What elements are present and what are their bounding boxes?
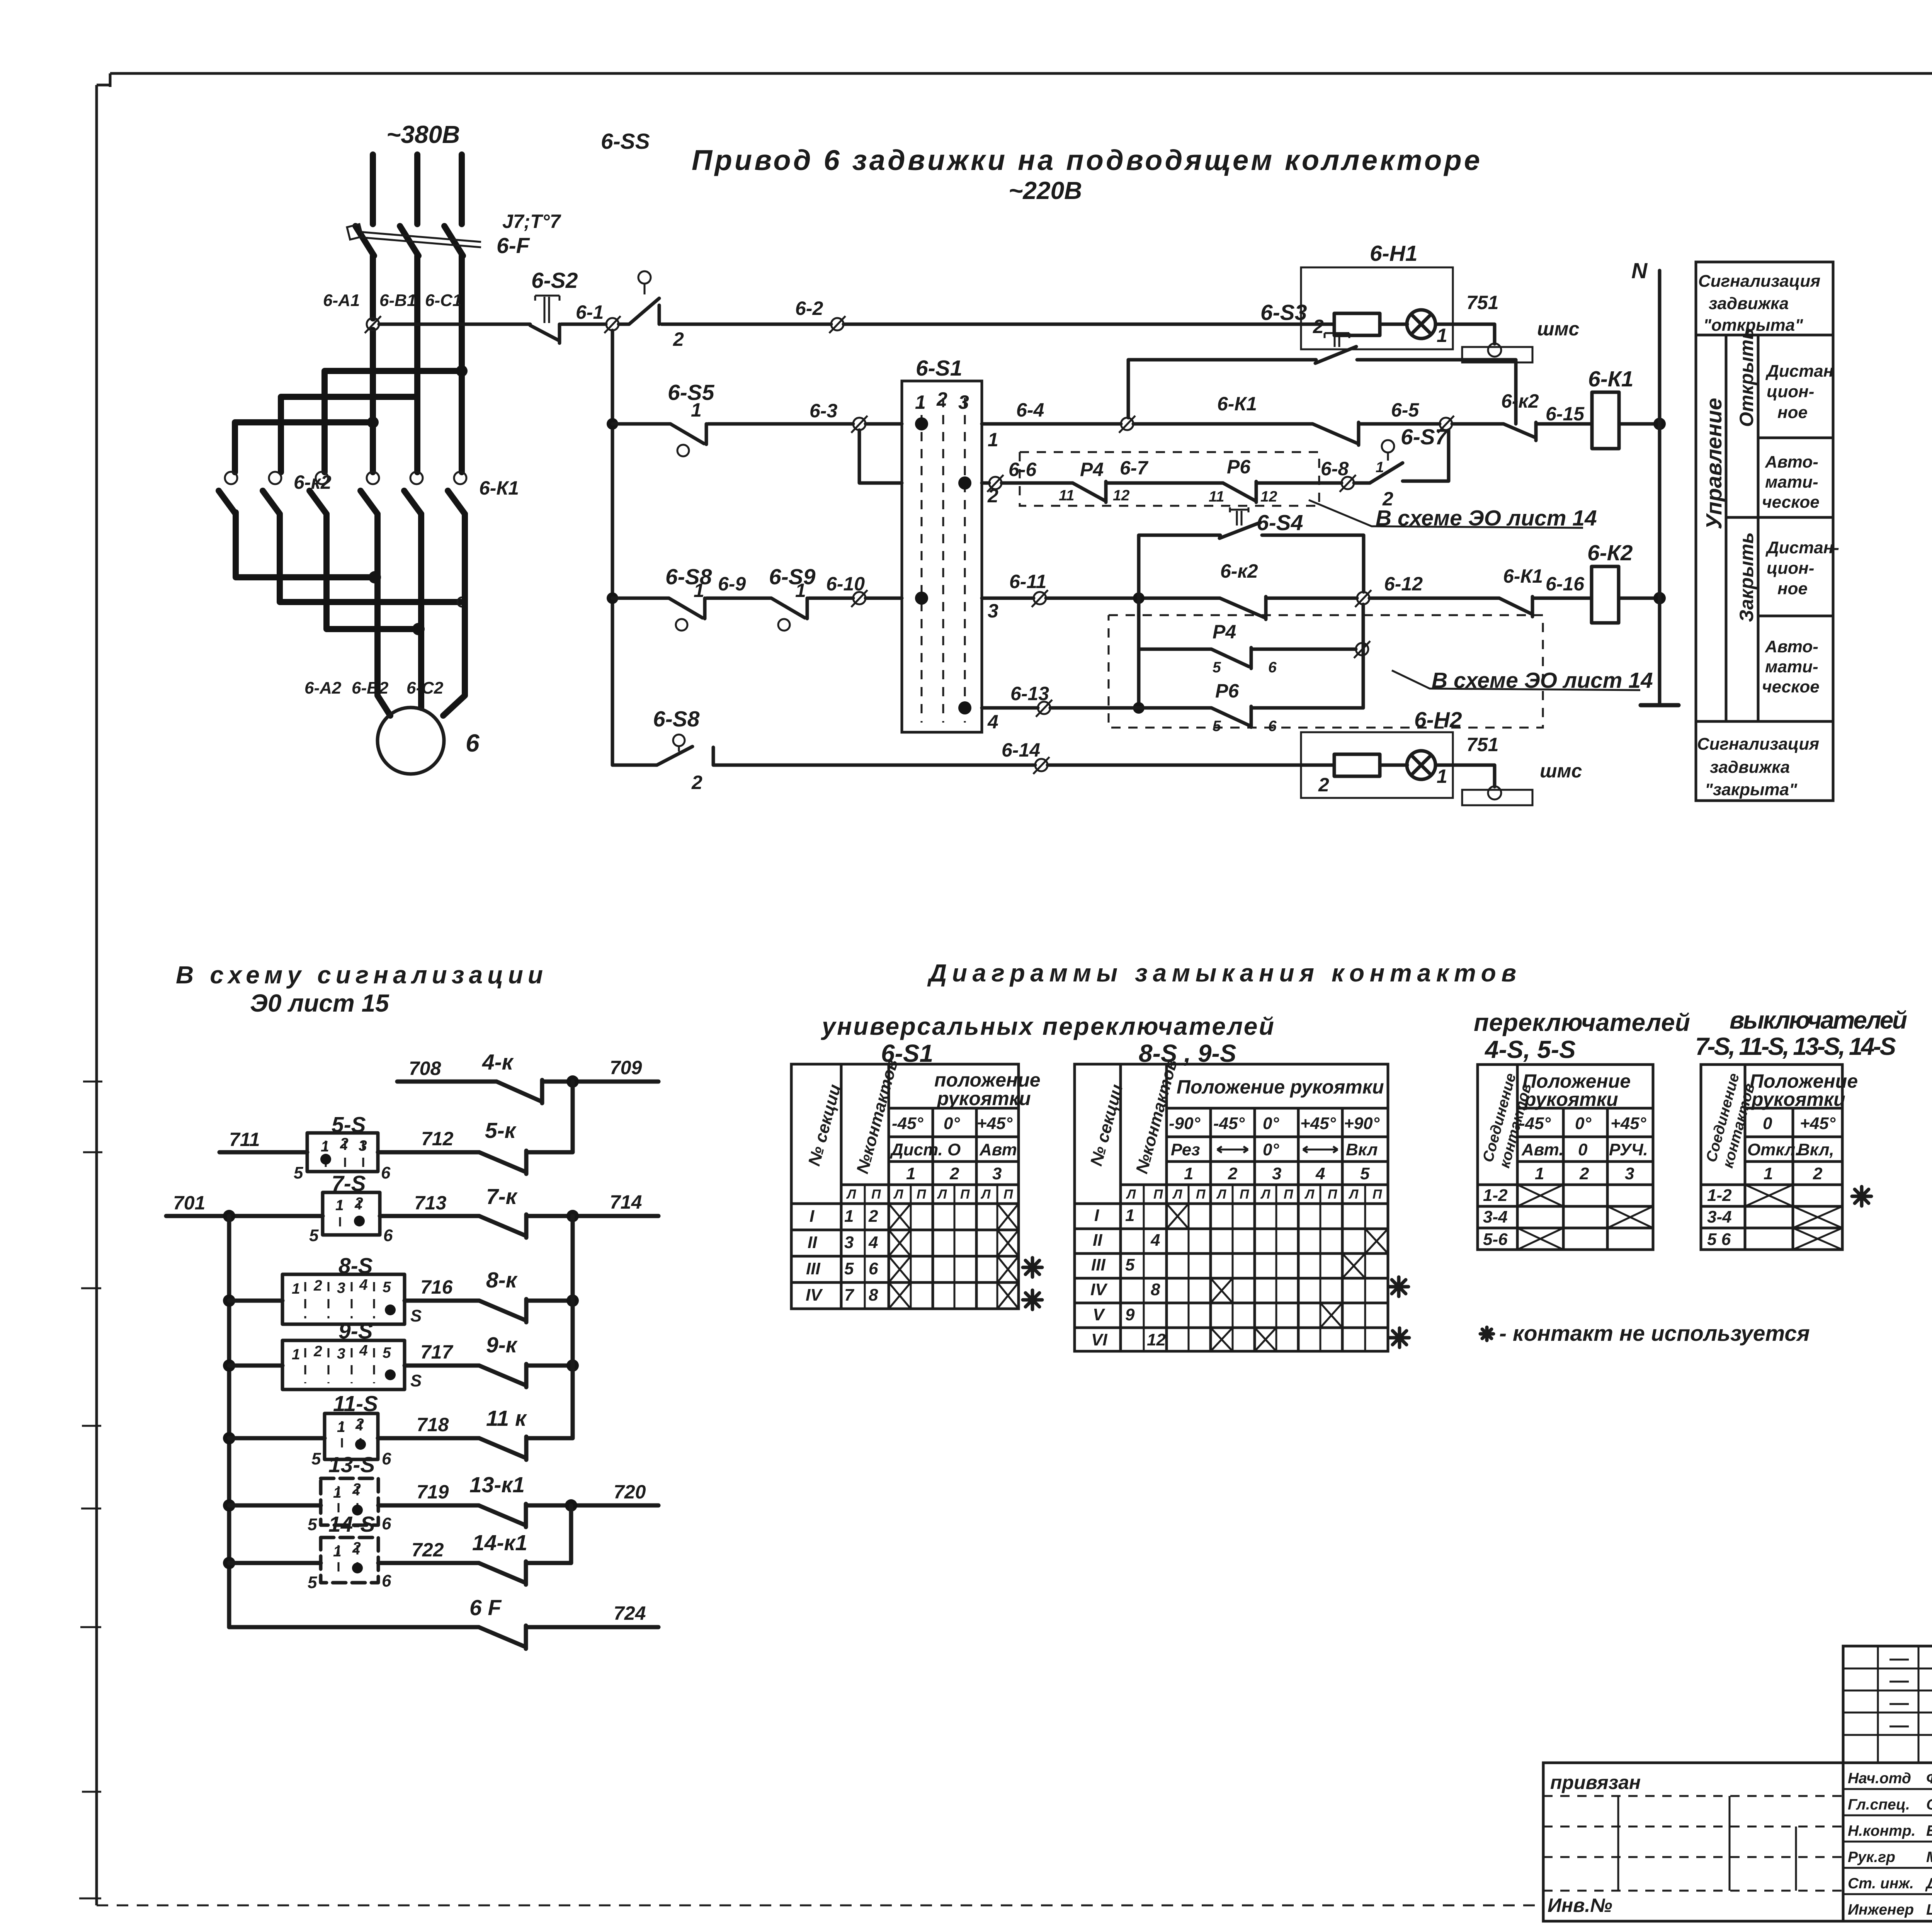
wire to junction row3 bbox=[1046, 597, 1220, 600]
wire 6-13 to P6 close bbox=[1050, 706, 1211, 710]
svg-text:В схему сигнализации: В схему сигнализации bbox=[176, 961, 543, 989]
svg-text:1: 1 bbox=[1437, 765, 1447, 787]
phase A segment below tap bbox=[370, 330, 376, 472]
svg-text:Сигнализация: Сигнализация bbox=[1697, 735, 1819, 753]
cable marker 6-13 bbox=[1038, 702, 1050, 714]
svg-text:722: 722 bbox=[412, 1539, 444, 1561]
wire 6-S2 to node 6-1 bbox=[561, 323, 606, 326]
wire to relay 6-K2 bbox=[1534, 597, 1592, 600]
contactor 6-K2 pole 2 circle bbox=[269, 472, 281, 484]
svg-text:6-А1: 6-А1 bbox=[323, 291, 360, 310]
svg-text:2: 2 bbox=[1313, 316, 1324, 337]
phase C incoming line bbox=[459, 155, 465, 224]
svg-text:Л: Л bbox=[937, 1187, 947, 1202]
wire 6-11 bbox=[982, 597, 1034, 600]
contact 2 output wire bbox=[280, 514, 462, 602]
table 4S5S frame bbox=[1478, 1065, 1653, 1250]
svg-text:720: 720 bbox=[614, 1481, 646, 1503]
svg-text:3: 3 bbox=[359, 1138, 367, 1154]
svg-text:1: 1 bbox=[333, 1543, 342, 1560]
left border tick marks bbox=[79, 1082, 102, 1898]
relay coil 6-K1 bbox=[1592, 392, 1619, 449]
motor lead C bbox=[443, 684, 465, 716]
pushbutton 6-S2 bbox=[535, 296, 560, 323]
cable marker 6-11 bbox=[1034, 592, 1046, 604]
svg-text:751: 751 bbox=[1466, 734, 1498, 755]
svg-text:6-4: 6-4 bbox=[1016, 399, 1044, 421]
svg-text:3-4: 3-4 bbox=[1483, 1207, 1508, 1226]
svg-text:3: 3 bbox=[337, 1280, 345, 1296]
7S horizontals bbox=[1701, 1108, 1842, 1228]
lamp 6-H2 bbox=[1407, 751, 1435, 779]
svg-text:Л: Л bbox=[1348, 1187, 1359, 1202]
svg-text:I: I bbox=[810, 1207, 815, 1226]
wire to cable marker 6-12 bbox=[1267, 597, 1357, 600]
svg-text:3: 3 bbox=[337, 1345, 345, 1362]
svg-text:шмс: шмс bbox=[1537, 318, 1579, 340]
svg-text:1: 1 bbox=[795, 580, 806, 601]
wire 714 bbox=[528, 1214, 658, 1218]
svg-text:~220В: ~220В bbox=[1009, 177, 1082, 204]
svg-text:1: 1 bbox=[1535, 1164, 1544, 1183]
cable marker on phase A row 1 bbox=[367, 318, 379, 330]
svg-text:Л: Л bbox=[1304, 1187, 1315, 1202]
switch 6-S7 bbox=[1354, 481, 1370, 485]
phase C segment bbox=[459, 256, 465, 472]
svg-text:6-А2: 6-А2 bbox=[304, 679, 342, 697]
svg-text:5: 5 bbox=[844, 1259, 854, 1278]
wire 717 bbox=[405, 1364, 479, 1368]
svg-text:Привод 6 задвижки на подводяще: Привод 6 задвижки на подводящем коллекто… bbox=[692, 144, 1480, 176]
junction dot phase C jumper bbox=[456, 365, 468, 377]
svg-text:7: 7 bbox=[844, 1286, 855, 1304]
revision grid dashes bbox=[1889, 1660, 1932, 1726]
dashed box interlock open bbox=[1020, 452, 1319, 506]
svg-text:Гл.спец.: Гл.спец. bbox=[1848, 1796, 1910, 1813]
wire 718 bbox=[378, 1436, 479, 1440]
svg-text:+45°: +45° bbox=[977, 1114, 1013, 1133]
svg-text:6-S1: 6-S1 bbox=[916, 356, 962, 381]
jumper phase B to contact 2 bbox=[281, 397, 417, 472]
svg-text:5-к: 5-к bbox=[485, 1118, 517, 1143]
svg-text:П: П bbox=[1240, 1187, 1250, 1202]
svg-text:6-14: 6-14 bbox=[1002, 739, 1040, 761]
svg-text:Авт.: Авт. bbox=[1521, 1140, 1564, 1159]
switch 6-SS contact 2 bbox=[638, 271, 651, 284]
svg-text:+90°: +90° bbox=[1344, 1114, 1380, 1133]
svg-text:П: П bbox=[960, 1187, 970, 1202]
svg-text:6-5: 6-5 bbox=[1391, 399, 1419, 421]
junction dot output B bbox=[412, 623, 425, 635]
svg-text:5: 5 bbox=[383, 1345, 391, 1361]
N bus end bar bbox=[1641, 703, 1679, 707]
wire row1 phase A to 6-S2 bbox=[379, 323, 530, 326]
svg-text:6: 6 bbox=[869, 1259, 878, 1278]
svg-text:8: 8 bbox=[869, 1286, 878, 1304]
6-S1 contact dot row3b bbox=[958, 701, 971, 714]
svg-text:Открыть: Открыть bbox=[1736, 328, 1757, 427]
svg-text:5: 5 bbox=[294, 1163, 303, 1182]
svg-text:В схеме ЭО лист 14: В схеме ЭО лист 14 bbox=[1432, 668, 1653, 693]
svg-text:Сигнализация: Сигнализация bbox=[1698, 272, 1820, 291]
signal table header separator bbox=[1696, 335, 1833, 721]
svg-text:6-к2: 6-к2 bbox=[1501, 390, 1539, 412]
svg-text:Л: Л bbox=[846, 1187, 856, 1202]
6-S1 contact dot row2 bbox=[915, 417, 928, 430]
wire bus to 6F row bbox=[229, 1625, 479, 1629]
svg-text:4: 4 bbox=[1150, 1231, 1160, 1250]
svg-text:1: 1 bbox=[337, 1419, 345, 1435]
wire bus to 11-S bbox=[229, 1436, 325, 1440]
contact 1 output wire bbox=[236, 514, 375, 577]
contactor 6-K1 pole 5 blade bbox=[404, 491, 421, 514]
wire coil2 to N bus bbox=[1619, 597, 1660, 600]
svg-text:6-С2: 6-С2 bbox=[406, 679, 444, 697]
bus junction dots bbox=[223, 1294, 235, 1307]
bypass close: riser left bbox=[1139, 535, 1220, 598]
sheet frame bottom border (dashed) bbox=[97, 1905, 1543, 1906]
svg-text:9-к: 9-к bbox=[486, 1333, 518, 1357]
contactor 6-K2 pole 1 blade bbox=[219, 491, 236, 514]
svg-text:11: 11 bbox=[1209, 488, 1225, 505]
svg-text:712: 712 bbox=[421, 1128, 454, 1150]
svg-text:Диаграммы замыкания контак: Диаграммы замыкания контактов bbox=[927, 959, 1516, 987]
svg-text:1: 1 bbox=[915, 391, 926, 413]
star marks 8S bbox=[1389, 1277, 1408, 1296]
wire 9-k to riser bbox=[528, 1364, 573, 1368]
svg-text:универсальных переключателей: универсальных переключателей bbox=[821, 1012, 1274, 1040]
svg-text:+45°: +45° bbox=[1611, 1114, 1646, 1133]
svg-text:6-16: 6-16 bbox=[1546, 573, 1585, 595]
star marks 6S1 bbox=[1023, 1258, 1042, 1277]
wire 6-14 to lamp box 6-H2 bbox=[1048, 764, 1334, 767]
cable marker 6-8 bbox=[1342, 477, 1354, 489]
svg-text:6-8: 6-8 bbox=[1321, 458, 1349, 480]
universal switch 6-S1 body bbox=[902, 381, 982, 732]
svg-text:1: 1 bbox=[321, 1138, 329, 1155]
svg-text:5: 5 bbox=[1213, 659, 1221, 676]
svg-text:Л: Л bbox=[1126, 1187, 1136, 1202]
svg-text:12: 12 bbox=[1113, 487, 1130, 504]
svg-text:2: 2 bbox=[352, 1539, 361, 1556]
svg-text:7-к: 7-к bbox=[486, 1184, 518, 1209]
svg-text:2: 2 bbox=[354, 1195, 363, 1211]
wire 6-12 to NC 6-K1 bbox=[1369, 597, 1499, 600]
svg-text:2: 2 bbox=[1579, 1164, 1589, 1183]
svg-text:6: 6 bbox=[383, 1226, 393, 1245]
svg-text:711: 711 bbox=[229, 1129, 260, 1150]
slash marker on stub P4 row bbox=[1356, 643, 1368, 655]
svg-text:9: 9 bbox=[1125, 1305, 1135, 1324]
svg-text:задвижка: задвижка bbox=[1709, 294, 1789, 313]
svg-text:Вкл: Вкл bbox=[1346, 1140, 1378, 1159]
cable marker 6-6 bbox=[989, 477, 1002, 489]
svg-text:12: 12 bbox=[1260, 488, 1277, 505]
svg-text:1: 1 bbox=[335, 1197, 344, 1214]
contactor 6-K2 pole 2 blade bbox=[263, 491, 280, 514]
table 6-S1 frame bbox=[791, 1064, 1019, 1309]
svg-text:5-6: 5-6 bbox=[1483, 1230, 1508, 1249]
svg-text:1: 1 bbox=[844, 1207, 854, 1226]
motor lead A bbox=[378, 684, 390, 716]
svg-text:6: 6 bbox=[382, 1449, 391, 1468]
wire 712 bbox=[378, 1150, 479, 1155]
cable marker 6-2 bbox=[831, 318, 844, 330]
junction dot output A bbox=[369, 571, 381, 583]
svg-text:Ст. инж.: Ст. инж. bbox=[1848, 1875, 1914, 1892]
relay coil 6-K2 bbox=[1592, 566, 1619, 623]
svg-text:Положение рукоятки: Положение рукоятки bbox=[1177, 1076, 1384, 1098]
svg-text:1: 1 bbox=[1437, 325, 1447, 346]
sheet frame top border bbox=[110, 72, 1932, 75]
svg-text:4: 4 bbox=[868, 1233, 878, 1252]
8S horizontals bbox=[1075, 1108, 1388, 1328]
lamp unit 6-H2 box bbox=[1301, 732, 1453, 798]
svg-text:6-К1: 6-К1 bbox=[1503, 565, 1543, 587]
wire bus to 9-S bbox=[229, 1364, 282, 1368]
svg-text:П: П bbox=[1003, 1187, 1014, 1202]
motor 6 circle bbox=[378, 707, 444, 774]
svg-text:0°: 0° bbox=[1263, 1140, 1279, 1159]
svg-text:0°: 0° bbox=[1263, 1114, 1279, 1133]
wire 6-3 to 6-S1 and drop to pin2 bbox=[859, 424, 902, 483]
wire lamp to shield bus bbox=[1435, 324, 1495, 344]
jumper phase C to contact 3 bbox=[325, 371, 462, 472]
svg-text:8: 8 bbox=[1151, 1280, 1160, 1299]
svg-text:3: 3 bbox=[988, 600, 998, 622]
4S horizontals bbox=[1478, 1108, 1653, 1228]
junction dot phase A jumper bbox=[367, 417, 379, 428]
contactor 6-K1 pole 4 circle bbox=[367, 472, 379, 484]
svg-text:5: 5 bbox=[311, 1449, 321, 1468]
phase B incoming line bbox=[414, 155, 420, 224]
svg-text:5: 5 bbox=[383, 1279, 391, 1296]
svg-text:13-S: 13-S bbox=[328, 1452, 375, 1477]
svg-text:рукоятки: рукоятки bbox=[1524, 1088, 1618, 1110]
svg-text:рукоятки: рукоятки bbox=[1751, 1088, 1845, 1110]
svg-text:5: 5 bbox=[1360, 1164, 1370, 1183]
svg-text:Л: Л bbox=[1172, 1187, 1182, 1202]
6S1 horizontals bbox=[791, 1108, 1019, 1282]
svg-text:2: 2 bbox=[936, 388, 947, 410]
svg-text:11: 11 bbox=[1059, 487, 1075, 504]
star mark 7S bbox=[1852, 1187, 1871, 1206]
svg-text:1-2: 1-2 bbox=[1483, 1186, 1508, 1205]
svg-text:IV: IV bbox=[806, 1286, 823, 1304]
phase A incoming line bbox=[370, 155, 376, 224]
svg-text:4: 4 bbox=[987, 711, 998, 733]
svg-text:5: 5 bbox=[1213, 718, 1221, 735]
svg-text:привязан: привязан bbox=[1550, 1772, 1641, 1793]
svg-text:718: 718 bbox=[417, 1414, 449, 1435]
svg-text:3: 3 bbox=[844, 1233, 854, 1252]
row3 wire from rail bbox=[612, 597, 669, 600]
node 6-1 cable marker bbox=[606, 318, 619, 330]
wire bus to 13-S bbox=[229, 1503, 321, 1508]
svg-text:Р6: Р6 bbox=[1215, 680, 1239, 702]
svg-text:Л: Л bbox=[980, 1187, 991, 1202]
junction dot ladder bus top bbox=[223, 1210, 235, 1222]
svg-text:5 6: 5 6 bbox=[1707, 1230, 1731, 1249]
svg-text:717: 717 bbox=[420, 1341, 454, 1363]
svg-text:1: 1 bbox=[988, 429, 998, 451]
contactor 6-K1 pole 6 blade bbox=[448, 491, 465, 514]
svg-text:Л: Л bbox=[1260, 1187, 1270, 1202]
svg-text:8-к: 8-к bbox=[486, 1268, 518, 1293]
svg-text:4-к: 4-к bbox=[482, 1050, 514, 1075]
row2b wire 6-6 bbox=[982, 481, 989, 485]
signal purpose table frame bbox=[1696, 262, 1833, 801]
wire 722 bbox=[378, 1561, 479, 1565]
svg-text:РУЧ.: РУЧ. bbox=[1609, 1140, 1648, 1159]
wire lamp2 to shield bus bbox=[1435, 765, 1495, 787]
wire 709 bbox=[544, 1080, 658, 1084]
svg-text:выключателей: выключателей bbox=[1730, 1006, 1907, 1034]
svg-text:III: III bbox=[806, 1259, 820, 1278]
6S1 X marks col 3P bbox=[997, 1204, 1019, 1309]
contact 5 output wire bbox=[418, 514, 424, 684]
svg-text:6-1: 6-1 bbox=[576, 301, 604, 323]
wire 6-7 bbox=[1107, 481, 1223, 485]
contactor 6-K2 pole 3 blade bbox=[310, 491, 327, 514]
svg-text:П: П bbox=[1153, 1187, 1163, 1202]
4S verticals bbox=[1517, 1065, 1607, 1250]
svg-text:II: II bbox=[808, 1233, 817, 1252]
svg-text:5: 5 bbox=[1125, 1255, 1135, 1274]
svg-text:VI: VI bbox=[1091, 1330, 1107, 1349]
wire 6-2 row1 bbox=[662, 323, 831, 326]
contact 3 output wire bbox=[327, 514, 418, 629]
svg-text:6: 6 bbox=[381, 1163, 391, 1182]
svg-text:724: 724 bbox=[614, 1602, 646, 1624]
6-S1 contact dot row3 bbox=[915, 592, 928, 605]
svg-text:ческое: ческое bbox=[1762, 493, 1820, 512]
svg-text:Дистан: Дистан bbox=[1765, 362, 1833, 381]
cable marker 6-4 bbox=[1121, 418, 1133, 430]
disconnector 6-F handle bbox=[347, 224, 362, 240]
wire 11-k to riser bbox=[528, 1216, 573, 1438]
6S1 X marks col 1L bbox=[889, 1204, 911, 1309]
svg-text:6-S8: 6-S8 bbox=[665, 565, 712, 589]
svg-text:6-SS: 6-SS bbox=[601, 129, 650, 154]
svg-text:переключателей: переключателей bbox=[1474, 1009, 1690, 1036]
title block revision grid columns bbox=[1878, 1646, 1932, 1763]
signal table inner verticals bbox=[1726, 335, 1758, 721]
svg-text:Р4: Р4 bbox=[1213, 621, 1236, 643]
svg-text:мати-: мати- bbox=[1765, 657, 1818, 676]
svg-text:1: 1 bbox=[1125, 1206, 1134, 1225]
resistor in 6-H2 bbox=[1334, 754, 1380, 776]
annex vertical dividers bbox=[1618, 1796, 1796, 1891]
svg-text:1: 1 bbox=[906, 1164, 915, 1183]
wire 6-6 to P4 bbox=[1002, 481, 1073, 485]
wire 8-k to riser bbox=[528, 1299, 573, 1303]
svg-text:Э0 лист 15: Э0 лист 15 bbox=[250, 989, 389, 1017]
control rail from node 6-1 down bbox=[611, 330, 614, 765]
svg-text:III: III bbox=[1091, 1255, 1105, 1274]
bypass open: top and riser right bbox=[1357, 360, 1516, 424]
jumper phase A to contact 1 bbox=[235, 422, 373, 472]
svg-text:2: 2 bbox=[691, 772, 702, 793]
svg-text:1: 1 bbox=[333, 1485, 342, 1501]
wire 6-4 bbox=[982, 422, 1121, 426]
disconnector 6-F blade phase C bbox=[444, 226, 463, 256]
svg-text:Рук.гр: Рук.гр bbox=[1848, 1849, 1895, 1866]
svg-text:Дорофеев: Дорофеев bbox=[1925, 1875, 1932, 1892]
svg-text:6-S8: 6-S8 bbox=[653, 707, 700, 731]
svg-text:0: 0 bbox=[1763, 1114, 1772, 1133]
contactor 6-K1 pole 4 blade bbox=[361, 491, 378, 514]
wire 6-10 bbox=[809, 597, 853, 600]
svg-text:Управление: Управление bbox=[1702, 398, 1726, 529]
svg-text:Н.контр.: Н.контр. bbox=[1848, 1823, 1915, 1839]
table 8S9S frame bbox=[1075, 1064, 1388, 1351]
svg-text:6-S7: 6-S7 bbox=[1401, 425, 1448, 449]
svg-text:6-S4: 6-S4 bbox=[1257, 510, 1303, 535]
svg-text:Обозная: Обозная bbox=[1926, 1796, 1932, 1813]
leader note V sheme EO list 14 (second) bbox=[1392, 670, 1640, 690]
svg-text:1: 1 bbox=[292, 1346, 300, 1363]
svg-text:1: 1 bbox=[1764, 1164, 1773, 1183]
svg-text:Инженер: Инженер bbox=[1848, 1901, 1914, 1918]
svg-text:4: 4 bbox=[359, 1277, 368, 1293]
svg-text:5: 5 bbox=[308, 1515, 317, 1534]
svg-text:Авт: Авт bbox=[979, 1140, 1017, 1159]
svg-text:П: П bbox=[1328, 1187, 1338, 1202]
svg-text:0°: 0° bbox=[944, 1114, 960, 1133]
wire 6-9 bbox=[706, 597, 771, 600]
svg-text:7-S, 11-S, 13-S, 14-S: 7-S, 11-S, 13-S, 14-S bbox=[1695, 1032, 1896, 1060]
parallel stub left close-auto bbox=[1137, 598, 1141, 708]
svg-text:6-К2: 6-К2 bbox=[1587, 541, 1633, 565]
shield bus SHMS row4 bbox=[1488, 786, 1501, 799]
svg-text:S: S bbox=[410, 1371, 422, 1390]
svg-text:2: 2 bbox=[352, 1481, 361, 1497]
cable marker 6-12 bbox=[1357, 592, 1369, 604]
wire coil to N bus bbox=[1619, 422, 1660, 426]
contactor 6-K1 pole 5 circle bbox=[410, 472, 423, 484]
wire 716 bbox=[405, 1299, 479, 1303]
svg-text:П: П bbox=[1196, 1187, 1206, 1202]
svg-text:Инв.№: Инв.№ bbox=[1548, 1895, 1612, 1916]
wire resistor to lamp bbox=[1380, 323, 1407, 326]
svg-text:6-S9: 6-S9 bbox=[769, 565, 816, 589]
svg-text:S: S bbox=[410, 1306, 422, 1325]
svg-text:J7;Т°7: J7;Т°7 bbox=[502, 211, 561, 232]
svg-text:14-к1: 14-к1 bbox=[472, 1531, 527, 1555]
wire resistor to lamp 2 bbox=[1380, 764, 1407, 767]
cable marker 6-5 bbox=[1440, 418, 1452, 430]
svg-text:рукоятки: рукоятки bbox=[936, 1088, 1031, 1109]
svg-text:Бондарь: Бондарь bbox=[1926, 1823, 1932, 1839]
disconnector 6-F blade phase B bbox=[400, 226, 418, 256]
svg-text:3: 3 bbox=[1625, 1164, 1634, 1183]
wire 701 bbox=[166, 1214, 323, 1218]
wire 724 bbox=[528, 1625, 658, 1629]
svg-text:задвижка: задвижка bbox=[1710, 758, 1790, 777]
lamp 6-H1 bbox=[1407, 310, 1435, 338]
svg-text:751: 751 bbox=[1466, 292, 1498, 313]
svg-text:Мизяк: Мизяк bbox=[1926, 1849, 1932, 1866]
svg-text:Дист.: Дист. bbox=[889, 1140, 943, 1159]
svg-text:6-К1: 6-К1 bbox=[1588, 367, 1633, 391]
wire row2 to selfhold contact bbox=[1133, 422, 1313, 426]
svg-text:N: N bbox=[1631, 259, 1648, 283]
cable marker 6-3 bbox=[853, 418, 866, 430]
row3b wire 6-13 bbox=[982, 706, 1038, 710]
svg-text:П: П bbox=[1372, 1187, 1383, 1202]
junction dot stub bottom bbox=[1133, 702, 1145, 714]
